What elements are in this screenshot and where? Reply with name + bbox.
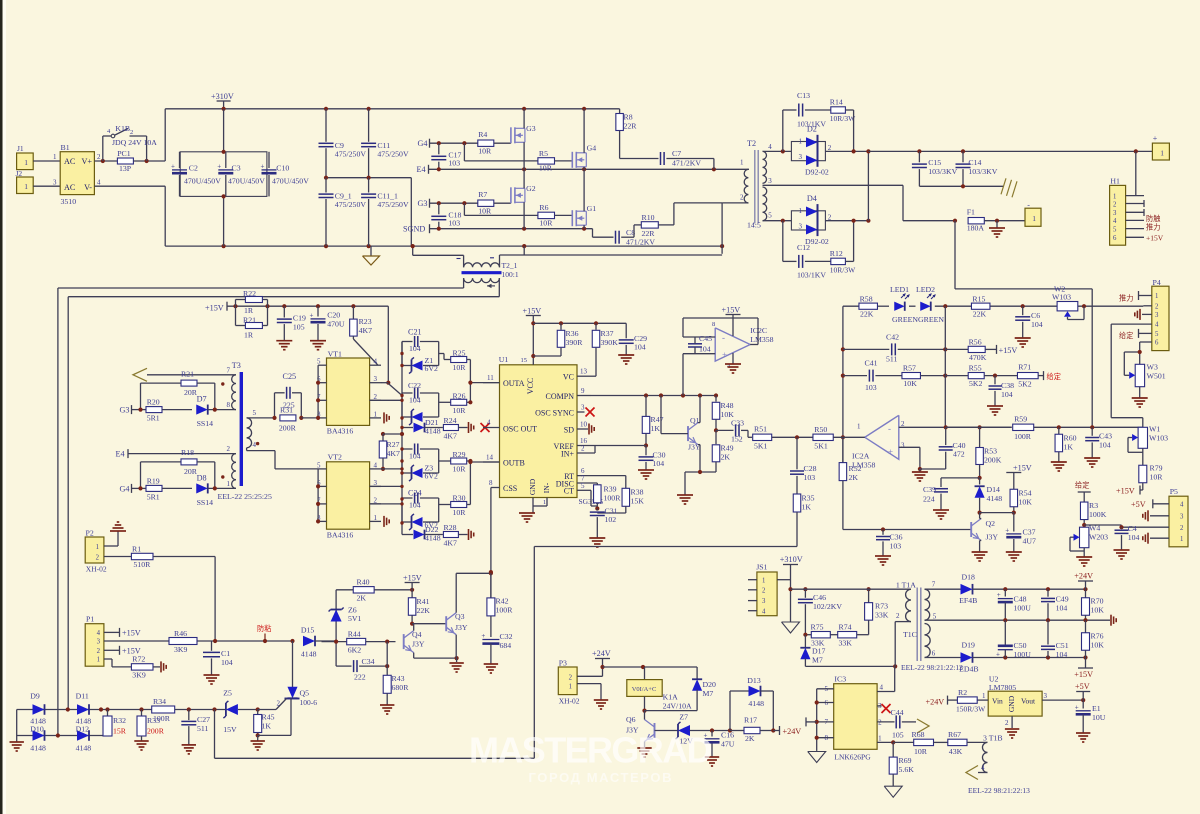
svg-text:+15V: +15V bbox=[999, 346, 1018, 355]
potentiometer W1 bbox=[1128, 425, 1168, 466]
svg-text:+: + bbox=[996, 651, 1000, 659]
svg-text:2: 2 bbox=[1005, 719, 1009, 727]
wire P4.2 bbox=[1143, 305, 1152, 307]
svg-text:4K7: 4K7 bbox=[359, 326, 373, 335]
svg-text:224: 224 bbox=[923, 495, 935, 504]
svg-text:JS1: JS1 bbox=[756, 563, 767, 572]
svg-text:Q2: Q2 bbox=[986, 519, 996, 528]
svg-text:D92-02: D92-02 bbox=[805, 237, 829, 246]
svg-text:C3: C3 bbox=[232, 164, 241, 173]
svg-text:1: 1 bbox=[374, 514, 378, 522]
svg-text:2: 2 bbox=[1113, 201, 1117, 208]
resistor R21B bbox=[236, 306, 268, 339]
wire IC2C feedback bbox=[683, 318, 758, 345]
svg-text:PC1: PC1 bbox=[117, 149, 131, 158]
svg-text:G2: G2 bbox=[526, 184, 536, 193]
wire V- to bottom bus bbox=[94, 186, 165, 246]
capacitor C30 bbox=[638, 446, 666, 480]
svg-text:W1: W1 bbox=[1149, 425, 1160, 434]
svg-text:104: 104 bbox=[1056, 604, 1068, 613]
svg-text:2: 2 bbox=[277, 700, 281, 708]
svg-text:3: 3 bbox=[768, 177, 772, 185]
svg-text:4: 4 bbox=[374, 461, 378, 469]
svg-text:10R: 10R bbox=[478, 207, 492, 216]
resistor R70 bbox=[1082, 589, 1105, 622]
svg-text:390K: 390K bbox=[601, 338, 619, 347]
relay contact K1B bbox=[103, 124, 157, 161]
svg-text:10R: 10R bbox=[539, 219, 553, 228]
port arrow T1B bbox=[966, 766, 978, 780]
capacitor C6 bbox=[1015, 306, 1043, 347]
svg-text:给定: 给定 bbox=[1119, 331, 1133, 340]
resistor R46 bbox=[169, 629, 197, 654]
svg-text:C11: C11 bbox=[377, 141, 390, 150]
no-connect X IC3.3 bbox=[882, 704, 891, 713]
svg-text:200K: 200K bbox=[984, 456, 1002, 465]
svg-text:2: 2 bbox=[130, 129, 133, 136]
svg-text:1: 1 bbox=[1032, 214, 1036, 223]
resistor R74 bbox=[830, 623, 868, 648]
wire D2 out bbox=[825, 149, 868, 153]
resistor R75 bbox=[803, 623, 830, 648]
svg-text:C16: C16 bbox=[721, 731, 734, 740]
svg-text:3: 3 bbox=[799, 222, 803, 230]
svg-text:R53: R53 bbox=[984, 447, 997, 456]
svg-text:1: 1 bbox=[24, 182, 28, 191]
svg-text:2K: 2K bbox=[745, 734, 755, 743]
svg-text:J3Y: J3Y bbox=[986, 533, 999, 542]
svg-text:105: 105 bbox=[293, 323, 305, 332]
svg-text:103/3KV: 103/3KV bbox=[968, 167, 997, 176]
svg-text:R31: R31 bbox=[280, 406, 293, 415]
wire D4 out bbox=[825, 149, 870, 223]
svg-text:684: 684 bbox=[500, 641, 512, 650]
svg-text:R57: R57 bbox=[903, 364, 916, 373]
net label G4 drive bbox=[120, 484, 147, 493]
ground VT1 pin1 bbox=[383, 412, 385, 423]
svg-text:103: 103 bbox=[804, 473, 816, 482]
svg-text:D15: D15 bbox=[301, 626, 315, 635]
svg-text:150R/3W: 150R/3W bbox=[956, 705, 986, 714]
svg-text:R76: R76 bbox=[1091, 632, 1104, 641]
wire bus to T2_1 bbox=[411, 244, 464, 255]
capacitor C42 bbox=[843, 333, 968, 364]
svg-text:1: 1 bbox=[857, 423, 861, 431]
svg-text:D8: D8 bbox=[197, 473, 207, 482]
svg-text:1: 1 bbox=[53, 153, 57, 161]
wire D10 D12 row bbox=[17, 733, 108, 742]
svg-text:103/1KV: 103/1KV bbox=[797, 271, 826, 280]
svg-text:C43: C43 bbox=[1099, 432, 1112, 441]
capacitor E1 bbox=[1075, 700, 1106, 742]
svg-text:R36: R36 bbox=[566, 329, 579, 338]
svg-text:P1: P1 bbox=[86, 615, 94, 624]
svg-text:6V2: 6V2 bbox=[425, 364, 439, 373]
svg-text:SGND: SGND bbox=[403, 225, 425, 234]
mid rail bbox=[324, 176, 411, 247]
svg-text:GND: GND bbox=[1007, 695, 1016, 712]
wire R59 row bbox=[946, 426, 1012, 428]
svg-text:1: 1 bbox=[799, 138, 803, 146]
svg-text:T2: T2 bbox=[747, 139, 756, 148]
capacitor C32 bbox=[481, 632, 512, 664]
net label G3 drive bbox=[120, 405, 147, 414]
bottom return bus bbox=[165, 244, 724, 248]
wire pin2 link bbox=[500, 246, 723, 255]
svg-text:104: 104 bbox=[653, 459, 665, 468]
svg-text:M7: M7 bbox=[703, 689, 714, 698]
svg-text:C11_1: C11_1 bbox=[377, 191, 398, 200]
svg-text:471/2KV: 471/2KV bbox=[626, 238, 655, 247]
svg-text:GREEN: GREEN bbox=[892, 315, 918, 324]
connector P4 bbox=[1152, 278, 1169, 351]
svg-text:R48: R48 bbox=[721, 401, 734, 410]
svg-text:VC: VC bbox=[563, 373, 574, 382]
wire lower bus bbox=[534, 547, 797, 759]
svg-text:5: 5 bbox=[253, 409, 257, 417]
diode D9 bbox=[30, 692, 46, 726]
wire bottom-left long bus bbox=[215, 710, 535, 759]
capacitor C49 bbox=[1041, 589, 1069, 622]
diode D15 bbox=[301, 626, 336, 659]
svg-text:D20: D20 bbox=[703, 680, 717, 689]
resistor R7 bbox=[478, 190, 511, 216]
svg-text:10K: 10K bbox=[1091, 606, 1105, 615]
driver VT2 bbox=[316, 453, 381, 540]
svg-text:R38: R38 bbox=[631, 488, 644, 497]
PWM controller U1 SG3525 bbox=[483, 355, 626, 513]
watermark bbox=[469, 730, 712, 786]
svg-text:J1: J1 bbox=[17, 144, 24, 153]
svg-text:3: 3 bbox=[53, 179, 57, 187]
svg-text:10R: 10R bbox=[453, 508, 467, 517]
svg-text:R56: R56 bbox=[969, 338, 982, 347]
svg-text:10K: 10K bbox=[903, 379, 917, 388]
snubber C12 bbox=[783, 221, 831, 280]
svg-text:LM7805: LM7805 bbox=[989, 683, 1016, 692]
capacitor C29 bbox=[618, 323, 647, 364]
transformer T1B bbox=[978, 734, 1003, 773]
svg-text:5: 5 bbox=[581, 482, 585, 490]
ground VT2 pin1 bbox=[383, 516, 385, 527]
svg-text:R21: R21 bbox=[181, 370, 194, 379]
svg-text:R79: R79 bbox=[1150, 464, 1163, 473]
svg-text:C41: C41 bbox=[865, 359, 878, 368]
resistor R15 bbox=[971, 295, 990, 319]
svg-text:2: 2 bbox=[581, 445, 585, 453]
svg-text:防触: 防触 bbox=[1146, 214, 1160, 223]
svg-text:+: + bbox=[481, 632, 485, 640]
wire F1 feedback bbox=[955, 221, 1092, 428]
svg-text:J3Y: J3Y bbox=[455, 623, 468, 632]
svg-text:LED2: LED2 bbox=[916, 285, 935, 294]
svg-text:R25: R25 bbox=[453, 349, 466, 358]
capacitor C28 bbox=[790, 435, 817, 494]
svg-text:5R1: 5R1 bbox=[147, 414, 160, 423]
ground Q1 bbox=[677, 494, 693, 496]
svg-text:R15: R15 bbox=[972, 295, 985, 304]
resistor R17 bbox=[730, 716, 801, 744]
connector P2 bbox=[85, 529, 131, 574]
svg-text:OSC OUT: OSC OUT bbox=[503, 425, 537, 434]
resistor R54 bbox=[980, 464, 1033, 515]
relay K1A bbox=[627, 667, 692, 713]
wire VT2 pin2 bbox=[370, 503, 402, 505]
resistor R52 bbox=[839, 437, 971, 531]
wire R41 to Q3 base bbox=[412, 623, 446, 625]
mosfet G2 bbox=[511, 169, 536, 228]
svg-text:5: 5 bbox=[317, 461, 321, 469]
resistor R40 bbox=[336, 578, 414, 603]
svg-text:104: 104 bbox=[699, 345, 711, 354]
resistor R1 bbox=[131, 545, 215, 642]
svg-text:W103: W103 bbox=[1149, 433, 1168, 442]
wire OUTB bbox=[468, 460, 499, 464]
svg-text:100R: 100R bbox=[496, 606, 514, 615]
svg-text:2K: 2K bbox=[849, 473, 859, 482]
svg-text:C32: C32 bbox=[500, 632, 513, 641]
resistor R44 bbox=[322, 630, 396, 655]
svg-text:E4: E4 bbox=[116, 450, 125, 459]
connector J2 bbox=[16, 169, 61, 194]
resistor R29 bbox=[439, 450, 473, 505]
bridge rectifier B1 bbox=[53, 143, 101, 206]
resistor R3 bbox=[1080, 501, 1123, 529]
svg-text:Z7: Z7 bbox=[679, 713, 688, 722]
svg-text:3 T1B: 3 T1B bbox=[983, 734, 1003, 743]
svg-text:1K: 1K bbox=[651, 424, 661, 433]
svg-text:R75: R75 bbox=[811, 623, 824, 632]
capacitor C31 bbox=[589, 507, 617, 548]
svg-text:200R: 200R bbox=[147, 727, 165, 736]
svg-text:+15V: +15V bbox=[1013, 464, 1032, 473]
capacitor C50 bbox=[996, 620, 1031, 659]
svg-text:R26: R26 bbox=[453, 391, 466, 400]
svg-text:C50: C50 bbox=[1014, 641, 1027, 650]
svg-text:4K7: 4K7 bbox=[444, 432, 458, 441]
wire IC2C plus input bbox=[683, 354, 715, 396]
capacitor C18 bbox=[431, 203, 461, 229]
svg-text:5K1: 5K1 bbox=[814, 442, 828, 451]
wire OUTA bbox=[468, 381, 499, 385]
resistor R23 bbox=[350, 306, 378, 365]
svg-text:G4: G4 bbox=[418, 139, 428, 148]
connector P5 bbox=[1169, 487, 1188, 547]
svg-text:P5: P5 bbox=[1170, 487, 1178, 496]
svg-text:COMPN: COMPN bbox=[546, 392, 575, 401]
wire T3 pin4 to VT2 bbox=[247, 448, 319, 469]
svg-text:1: 1 bbox=[569, 684, 572, 691]
transistor Q6 bbox=[626, 711, 678, 748]
resistor R42 bbox=[487, 570, 513, 637]
svg-text:+: + bbox=[217, 162, 221, 170]
svg-text:+15V: +15V bbox=[1116, 486, 1135, 495]
svg-text:475/250V: 475/250V bbox=[377, 150, 409, 159]
svg-text:R12: R12 bbox=[830, 249, 843, 258]
resistor R49 bbox=[685, 430, 734, 495]
svg-text:C9_1: C9_1 bbox=[335, 191, 352, 200]
LED LED2 bbox=[916, 285, 944, 324]
resistor R43 bbox=[383, 666, 409, 705]
port 防粘 bbox=[257, 624, 271, 641]
svg-text:R59: R59 bbox=[1014, 415, 1027, 424]
svg-text:Z5: Z5 bbox=[223, 689, 232, 698]
resistor R76 bbox=[1082, 620, 1105, 657]
resistor R39 bbox=[594, 483, 622, 509]
svg-text:4: 4 bbox=[768, 143, 772, 151]
svg-text:3: 3 bbox=[1155, 312, 1159, 319]
capacitor C19 bbox=[276, 306, 306, 350]
svg-text:4: 4 bbox=[253, 441, 257, 449]
svg-text:470U: 470U bbox=[327, 320, 345, 329]
resistor R2 bbox=[926, 688, 987, 714]
potentiometer W2 bbox=[1052, 285, 1084, 320]
diode D20 bbox=[645, 667, 717, 711]
svg-text:100K: 100K bbox=[1089, 510, 1107, 519]
svg-text:10K: 10K bbox=[1091, 641, 1105, 650]
svg-text:D13: D13 bbox=[747, 676, 761, 685]
zener Z7 bbox=[676, 713, 733, 746]
svg-text:4: 4 bbox=[981, 764, 985, 772]
svg-text:R30: R30 bbox=[453, 494, 466, 503]
resistor R53 bbox=[976, 427, 1002, 480]
svg-text:W3: W3 bbox=[1147, 363, 1158, 372]
svg-text:J2: J2 bbox=[16, 169, 23, 178]
svg-text:7: 7 bbox=[227, 367, 231, 375]
svg-text:VT1: VT1 bbox=[328, 350, 342, 359]
svg-text:EEL-22 98:21:22:13: EEL-22 98:21:22:13 bbox=[968, 786, 1030, 795]
ground Q3 bbox=[449, 662, 463, 664]
capacitor C2 bbox=[171, 152, 221, 197]
resistor R8 bbox=[616, 109, 659, 159]
svg-text:JDQ 24V 10A: JDQ 24V 10A bbox=[112, 138, 157, 147]
resistor R4 bbox=[478, 130, 511, 156]
wire T2_1 sec B bbox=[68, 297, 499, 710]
wire T2 pin5 row bbox=[763, 219, 792, 223]
svg-text:10U: 10U bbox=[1092, 713, 1106, 722]
svg-text:5: 5 bbox=[933, 613, 937, 621]
svg-text:K1A: K1A bbox=[663, 693, 679, 702]
svg-text:-: - bbox=[888, 424, 891, 434]
svg-text:D7: D7 bbox=[197, 395, 207, 404]
capacitor C51 bbox=[1041, 620, 1069, 659]
svg-text:6K2: 6K2 bbox=[348, 646, 362, 655]
ground P4.3 bbox=[1135, 309, 1152, 320]
svg-text:R41: R41 bbox=[417, 597, 430, 606]
capacitor C27 bbox=[181, 710, 210, 754]
svg-text:+15V: +15V bbox=[1074, 670, 1093, 679]
ground R33 bbox=[134, 740, 148, 742]
ground mid rail bbox=[1110, 615, 1112, 626]
net label G3 bbox=[418, 199, 430, 208]
svg-text:33K: 33K bbox=[839, 639, 853, 648]
transistor Q1 bbox=[661, 396, 701, 473]
svg-text:Q4: Q4 bbox=[412, 630, 422, 639]
svg-text:R49: R49 bbox=[721, 444, 734, 453]
resistor R41 bbox=[408, 597, 430, 626]
port +5V P5.4 bbox=[1131, 499, 1169, 509]
svg-text:+15V: +15V bbox=[722, 306, 741, 315]
thyristor Q5 bbox=[258, 641, 318, 735]
wire G4 gate row bbox=[430, 141, 478, 145]
wire P4.4 to W1 bbox=[1111, 324, 1152, 427]
svg-text:100U: 100U bbox=[1014, 604, 1032, 613]
capacitor C48 bbox=[997, 589, 1031, 622]
connector J1 bbox=[17, 144, 61, 170]
resistor R67 bbox=[934, 730, 988, 756]
svg-text:J3Y: J3Y bbox=[688, 443, 701, 452]
svg-text:6V2: 6V2 bbox=[425, 472, 439, 481]
svg-text:4: 4 bbox=[97, 179, 101, 187]
svg-text:511: 511 bbox=[886, 355, 898, 364]
resistor R34 bbox=[152, 697, 226, 723]
svg-text:C49: C49 bbox=[1056, 595, 1069, 604]
svg-text:-: - bbox=[722, 333, 725, 343]
ground D10 bbox=[10, 741, 24, 743]
svg-text:R6: R6 bbox=[539, 203, 548, 212]
svg-text:R44: R44 bbox=[348, 630, 361, 639]
svg-text:2: 2 bbox=[97, 648, 101, 655]
svg-text:1: 1 bbox=[799, 207, 803, 215]
capacitor C11 bbox=[361, 109, 409, 178]
svg-text:GND: GND bbox=[528, 478, 537, 495]
svg-text:R74: R74 bbox=[839, 623, 852, 632]
svg-text:104: 104 bbox=[1099, 441, 1111, 450]
capacitor C8 bbox=[593, 225, 656, 247]
capacitor C36 bbox=[875, 530, 903, 566]
resistor R18 bbox=[141, 448, 215, 488]
svg-text:C25: C25 bbox=[283, 372, 297, 381]
svg-text:470U/450V: 470U/450V bbox=[184, 177, 221, 186]
svg-text:C45: C45 bbox=[699, 334, 712, 343]
svg-text:13: 13 bbox=[580, 368, 588, 376]
svg-text:1K: 1K bbox=[1064, 443, 1074, 452]
power +24V P3 bbox=[592, 649, 611, 669]
svg-text:E1: E1 bbox=[1092, 704, 1101, 713]
svg-text:3: 3 bbox=[762, 598, 766, 605]
capacitor C4 bbox=[1114, 524, 1140, 559]
svg-text:222: 222 bbox=[354, 673, 366, 682]
diode D14 bbox=[975, 478, 1003, 515]
capacitor C3 bbox=[217, 152, 265, 197]
top +310V bus bbox=[165, 107, 619, 111]
svg-text:R21: R21 bbox=[243, 316, 256, 325]
svg-text:P2: P2 bbox=[86, 529, 94, 538]
svg-text:R73: R73 bbox=[875, 602, 888, 611]
svg-text:J3Y: J3Y bbox=[412, 640, 425, 649]
output terminal minus bbox=[1025, 201, 1041, 227]
svg-text:Q6: Q6 bbox=[626, 715, 636, 724]
svg-text:8: 8 bbox=[489, 479, 493, 487]
ground Q6 bbox=[637, 747, 651, 749]
ground after R24 bbox=[468, 422, 470, 433]
svg-text:XH-02: XH-02 bbox=[559, 697, 580, 706]
capacitor C16 bbox=[704, 731, 735, 767]
svg-text:R68: R68 bbox=[912, 730, 925, 739]
zener group C22 bbox=[402, 381, 439, 425]
ground P2 up bbox=[110, 530, 126, 532]
svg-text:V0I/A+C: V0I/A+C bbox=[632, 686, 657, 693]
diode D12 bbox=[76, 725, 92, 753]
svg-text:15R: 15R bbox=[113, 727, 127, 736]
svg-text:1: 1 bbox=[374, 410, 378, 418]
svg-text:5K1: 5K1 bbox=[754, 442, 768, 451]
ground SD bbox=[588, 424, 590, 435]
wire V+ riser bbox=[164, 109, 166, 161]
svg-text:24V/10A: 24V/10A bbox=[663, 702, 692, 711]
resistor R21 bbox=[141, 370, 215, 410]
wire VT1 pin2 bbox=[370, 399, 402, 401]
